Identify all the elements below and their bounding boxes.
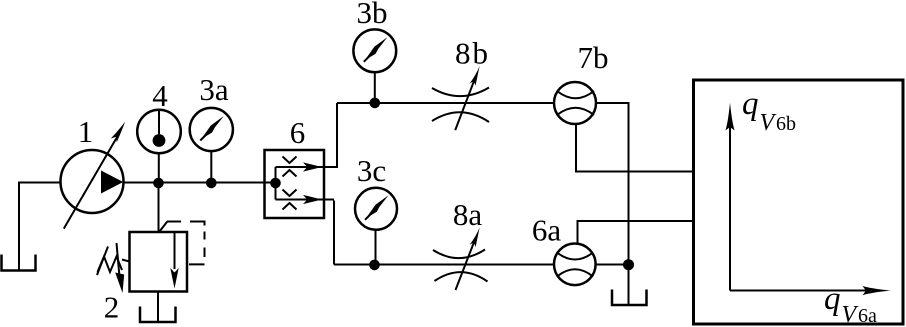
svg-text:1: 1 xyxy=(78,114,94,149)
gauge 3a xyxy=(190,72,233,183)
flow meter 6a xyxy=(532,213,596,286)
tank T2 (below valve 2) xyxy=(140,307,176,323)
wire bottom branch xyxy=(334,264,554,266)
svg-text:q: q xyxy=(824,281,841,317)
svg-text:7b: 7b xyxy=(578,40,609,75)
svg-text:3a: 3a xyxy=(199,72,229,107)
svg-text:3b: 3b xyxy=(357,0,388,30)
svg-text:q: q xyxy=(742,86,759,122)
node junction rail/gauge4/valve2 xyxy=(153,178,164,189)
wire valve 2 inlet drop xyxy=(158,183,160,232)
thermometer 4 xyxy=(137,78,181,183)
node drain junction xyxy=(623,259,634,270)
svg-text:4: 4 xyxy=(152,78,168,113)
relief valve 2 xyxy=(97,222,205,325)
svg-text:6a: 6a xyxy=(858,305,877,327)
wire 6a right to drain junction xyxy=(596,264,629,266)
svg-text:8b: 8b xyxy=(455,36,490,71)
svg-text:8a: 8a xyxy=(453,197,483,232)
flow divider 6 xyxy=(265,115,338,218)
svg-text:6: 6 xyxy=(290,115,306,150)
gauge 3c xyxy=(355,153,397,265)
chart box xyxy=(694,80,904,324)
svg-text:6a: 6a xyxy=(532,213,562,248)
wire riser to top branch xyxy=(336,103,338,168)
svg-text:2: 2 xyxy=(104,290,120,325)
svg-text:3c: 3c xyxy=(357,153,386,188)
wire 6a top to chart box xyxy=(578,221,694,244)
tank T1 (left reservoir) xyxy=(2,255,36,271)
x-axis q_V6a xyxy=(730,281,891,327)
wire drain drop xyxy=(628,265,630,306)
svg-text:6b: 6b xyxy=(776,113,796,135)
wire main rail xyxy=(123,182,275,184)
wire 7b bottom to chart box xyxy=(576,124,694,172)
y-axis q_V6b xyxy=(725,86,796,291)
node junction branch/gauge 3b xyxy=(370,98,381,109)
svg-text:V: V xyxy=(842,302,859,327)
wire 7b right to drain junction xyxy=(596,103,629,265)
node junction branch/gauge 3c xyxy=(369,260,380,271)
throttle valve 8a xyxy=(433,197,488,290)
node junction rail/gauge 3a xyxy=(206,178,217,189)
svg-text:V: V xyxy=(760,110,777,136)
throttle valve 8b xyxy=(432,36,490,131)
wire top branch xyxy=(337,102,554,104)
flow meter 7b xyxy=(554,40,609,124)
wire pump suction xyxy=(19,183,61,271)
pump 1 (variable displacement) xyxy=(61,114,126,229)
tank T3 (right reservoir) xyxy=(612,290,647,306)
gauge 3b xyxy=(353,0,396,103)
wire valve 2 outlet xyxy=(157,292,159,323)
wire drop to bottom branch xyxy=(333,201,335,265)
